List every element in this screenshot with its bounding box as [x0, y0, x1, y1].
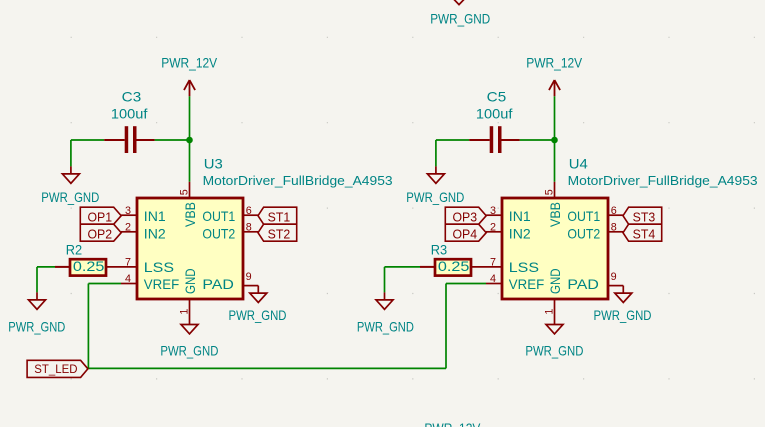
svg-text:PAD: PAD — [567, 276, 599, 292]
svg-text:OUT1: OUT1 — [567, 208, 600, 224]
svg-text:2: 2 — [490, 221, 496, 233]
svg-text:1: 1 — [179, 309, 191, 315]
svg-text:OP4: OP4 — [453, 226, 478, 241]
svg-text:GND: GND — [547, 268, 563, 294]
svg-text:3: 3 — [125, 205, 131, 217]
svg-text:LSS: LSS — [509, 259, 539, 275]
svg-text:PWR_GND: PWR_GND — [594, 308, 652, 323]
svg-text:4: 4 — [125, 273, 131, 285]
svg-text:100uf: 100uf — [476, 106, 513, 121]
svg-text:VBB: VBB — [547, 202, 563, 227]
svg-text:OP1: OP1 — [88, 209, 113, 224]
svg-text:U3: U3 — [204, 157, 223, 172]
svg-text:7: 7 — [490, 257, 496, 269]
svg-text:U4: U4 — [569, 157, 588, 172]
svg-text:PWR_GND: PWR_GND — [160, 343, 218, 358]
svg-text:0.25: 0.25 — [73, 259, 105, 274]
svg-text:6: 6 — [611, 205, 617, 217]
svg-text:MotorDriver_FullBridge_A4953: MotorDriver_FullBridge_A4953 — [203, 173, 393, 188]
svg-text:GND: GND — [182, 268, 198, 294]
svg-text:C5: C5 — [487, 90, 507, 105]
svg-text:7: 7 — [125, 257, 131, 269]
svg-text:OUT2: OUT2 — [202, 226, 235, 242]
svg-text:PWR_12V: PWR_12V — [161, 56, 217, 71]
svg-text:ST3: ST3 — [633, 209, 656, 224]
svg-text:PWR_GND: PWR_GND — [8, 319, 65, 334]
svg-text:4: 4 — [490, 273, 496, 285]
svg-text:VREF: VREF — [144, 276, 179, 292]
svg-text:3: 3 — [490, 205, 496, 217]
svg-text:VBB: VBB — [182, 202, 198, 227]
svg-text:9: 9 — [611, 271, 617, 283]
svg-text:PWR_GND: PWR_GND — [229, 308, 287, 323]
svg-text:IN1: IN1 — [144, 208, 166, 224]
svg-text:R2: R2 — [66, 243, 82, 258]
svg-text:PWR_GND: PWR_GND — [41, 190, 99, 205]
svg-text:PWR_12V: PWR_12V — [424, 421, 480, 427]
svg-text:MotorDriver_FullBridge_A4953: MotorDriver_FullBridge_A4953 — [568, 173, 758, 188]
svg-text:IN2: IN2 — [144, 226, 166, 242]
svg-text:5: 5 — [544, 189, 556, 195]
svg-text:100uf: 100uf — [111, 106, 148, 121]
svg-text:VREF: VREF — [509, 276, 544, 292]
svg-text:PWR_GND: PWR_GND — [357, 319, 414, 334]
svg-text:ST4: ST4 — [633, 226, 656, 241]
svg-text:8: 8 — [246, 221, 252, 233]
svg-text:PWR_GND: PWR_GND — [406, 190, 464, 205]
svg-text:ST1: ST1 — [268, 209, 291, 224]
svg-text:1: 1 — [544, 309, 556, 315]
svg-text:IN1: IN1 — [509, 208, 531, 224]
svg-text:6: 6 — [246, 205, 252, 217]
svg-text:8: 8 — [611, 221, 617, 233]
svg-text:5: 5 — [179, 189, 191, 195]
svg-text:C3: C3 — [122, 90, 142, 105]
svg-text:PWR_GND: PWR_GND — [430, 12, 490, 27]
svg-text:PWR_12V: PWR_12V — [526, 56, 582, 71]
svg-text:2: 2 — [125, 221, 131, 233]
svg-text:PWR_GND: PWR_GND — [525, 343, 583, 358]
svg-text:PAD: PAD — [202, 276, 234, 292]
svg-text:R3: R3 — [431, 243, 447, 258]
svg-text:OUT1: OUT1 — [202, 208, 235, 224]
svg-text:OUT2: OUT2 — [567, 226, 600, 242]
svg-text:IN2: IN2 — [509, 226, 531, 242]
svg-text:ST2: ST2 — [268, 226, 291, 241]
svg-text:OP3: OP3 — [453, 209, 478, 224]
svg-text:OP2: OP2 — [88, 226, 113, 241]
svg-text:ST_LED: ST_LED — [34, 362, 77, 376]
svg-text:9: 9 — [246, 271, 252, 283]
svg-text:LSS: LSS — [144, 259, 174, 275]
svg-text:0.25: 0.25 — [438, 259, 470, 274]
